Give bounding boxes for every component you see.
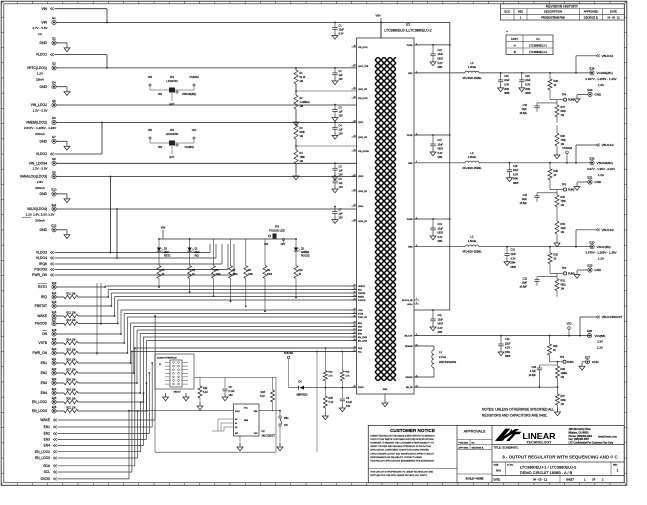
svg-text:PWR_ON: PWR_ON <box>33 351 48 355</box>
svg-text:R13 10k: R13 10k <box>66 319 76 322</box>
svg-text:RED: RED <box>195 252 200 254</box>
svg-text:R16 10k: R16 10k <box>66 358 76 361</box>
svg-text:RUN4: RUN4 <box>567 361 574 364</box>
svg-text:SDA: SDA <box>43 464 51 468</box>
svg-text:R27: R27 <box>561 395 566 398</box>
svg-text:EXT: EXT <box>169 155 174 159</box>
svg-text:25mA: 25mA <box>36 78 44 82</box>
svg-text:1630 McCarthy Blvd.: 1630 McCarthy Blvd. <box>569 428 592 431</box>
svg-text:0.97V - 1.95V - 2.02V: 0.97V - 1.95V - 2.02V <box>587 167 615 171</box>
svg-text:30: 30 <box>354 189 356 191</box>
svg-text:1.2A: 1.2A <box>597 346 603 350</box>
svg-text:VIN: VIN <box>148 128 152 132</box>
svg-text:SCLK: SCLK <box>235 411 241 413</box>
svg-text:2.8V: 2.8V <box>37 180 43 184</box>
svg-text:100k: 100k <box>248 274 254 276</box>
svg-text:APPLICATION. COMPONENT SUBSTIT: APPLICATION. COMPONENT SUBSTITUTION AND … <box>370 449 429 452</box>
svg-text:31: 31 <box>354 174 356 176</box>
svg-text:CIRCUIT THAT MEETS CUSTOMER-SU: CIRCUIT THAT MEETS CUSTOMER-SUPPLIED SPE… <box>370 438 434 441</box>
svg-text:VSRAM: VSRAM <box>562 146 573 150</box>
svg-text:JP3: JP3 <box>275 225 280 229</box>
svg-text:VSRAM(B2): VSRAM(B2) <box>597 161 613 165</box>
svg-text:C17: C17 <box>438 139 443 142</box>
svg-text:R28: R28 <box>561 368 566 371</box>
svg-text:E25: E25 <box>52 396 57 400</box>
svg-text:10V: 10V <box>339 78 344 81</box>
svg-text:LDO1_FB: LDO1_FB <box>358 89 368 91</box>
svg-text:THIS CIRCUIT IS PROPRIETARY TO: THIS CIRCUIT IS PROPRIETARY TO LINEAR TE… <box>370 471 433 474</box>
svg-text:RESISTORS AND CAPACITORS ARE 0: RESISTORS AND CAPACITORS ARE 0402. <box>482 414 547 418</box>
svg-text:LDO3: LDO3 <box>358 176 364 178</box>
svg-text:CIRCUIT BOARD LAYOUT MAY SIGNI: CIRCUIT BOARD LAYOUT MAY SIGNIFICANTLY A… <box>370 452 434 455</box>
svg-text:XFL4020-152ML: XFL4020-152ML <box>462 76 482 80</box>
svg-text:04 - 05 - 12: 04 - 05 - 12 <box>607 16 620 19</box>
svg-text:ASSY: ASSY <box>511 37 518 41</box>
svg-text:PVIN3: PVIN3 <box>407 219 414 221</box>
svg-text:RUN2: RUN2 <box>568 189 575 192</box>
svg-text:TECHNOLOGY APPLICATIONS ENGINE: TECHNOLOGY APPLICATIONS ENGINEERING FOR … <box>370 459 435 462</box>
svg-text:A1: A1 <box>235 422 237 425</box>
svg-text:VIO: VIO <box>192 128 196 132</box>
svg-text:NC: NC <box>472 442 476 444</box>
svg-text:C14: C14 <box>438 223 443 226</box>
svg-text:PGOOD: PGOOD <box>34 268 47 272</box>
svg-text:10pF: 10pF <box>522 108 528 111</box>
svg-text:6.3V: 6.3V <box>438 327 443 330</box>
svg-text:0.947V - 1.206V - 1.34V: 0.947V - 1.206V - 1.34V <box>585 77 616 81</box>
svg-text:1.50uH: 1.50uH <box>468 155 476 159</box>
svg-text:EN_LDO3: EN_LDO3 <box>35 456 50 460</box>
svg-text:5V6VSD: 5V6VSD <box>284 352 293 355</box>
svg-text:Milpitas, CA 95035: Milpitas, CA 95035 <box>569 432 590 435</box>
svg-text:VIN_LDO2: VIN_LDO2 <box>31 103 48 107</box>
svg-text:JP2: JP2 <box>170 128 175 132</box>
svg-text:1uF: 1uF <box>339 213 344 216</box>
svg-text:EN_LDO2: EN_LDO2 <box>35 450 50 454</box>
svg-text:DRNCB: DRNCB <box>405 377 413 379</box>
svg-text:C18: C18 <box>523 104 528 107</box>
svg-text:GND: GND <box>592 360 600 364</box>
svg-text:OFF: OFF <box>281 243 286 246</box>
svg-text:GEORGE B.: GEORGE B. <box>472 447 485 449</box>
svg-text:24LC025/ST: 24LC025/ST <box>262 435 276 438</box>
svg-text:748k: 748k <box>561 139 567 142</box>
svg-text:REV: REV <box>613 465 618 467</box>
svg-text:LDO2: LDO2 <box>358 122 364 124</box>
svg-text:VSRAM(B2): VSRAM(B2) <box>182 92 196 96</box>
svg-text:1K: 1K <box>192 274 195 276</box>
svg-text:E8: E8 <box>52 157 56 161</box>
svg-text:EN2: EN2 <box>44 432 51 436</box>
svg-text:VBUCK1: VBUCK1 <box>602 54 614 58</box>
svg-text:R18 10k: R18 10k <box>66 378 76 381</box>
svg-text:0603: 0603 <box>438 323 444 326</box>
svg-text:28: 28 <box>354 219 356 221</box>
svg-text:22uF: 22uF <box>504 79 510 82</box>
svg-text:DC590 INTERFACE: DC590 INTERFACE <box>157 357 177 360</box>
svg-text:VIN: VIN <box>158 92 162 96</box>
svg-text:200mA: 200mA <box>35 132 45 136</box>
svg-text:REV: REV <box>518 10 524 14</box>
svg-text:E28: E28 <box>587 329 592 333</box>
svg-text:1.2A: 1.2A <box>598 257 604 261</box>
svg-text:LDO2_FB: LDO2_FB <box>358 137 368 139</box>
svg-text:VIO(B3): VIO(B3) <box>184 145 194 149</box>
svg-text:5.1K: 5.1K <box>260 395 265 398</box>
svg-text:10V: 10V <box>339 217 344 220</box>
svg-text:C20: C20 <box>525 75 530 78</box>
svg-text:LTC3880EUJ-1: LTC3880EUJ-1 <box>529 43 547 47</box>
svg-text:29: 29 <box>354 204 356 206</box>
svg-text:PBSTAT: PBSTAT <box>358 292 366 295</box>
svg-text:RSTO: RSTO <box>164 256 171 258</box>
svg-text:VIN: VIN <box>375 14 380 18</box>
svg-text:10V: 10V <box>339 173 344 176</box>
svg-text:22uF: 22uF <box>513 169 519 172</box>
svg-text:0805: 0805 <box>511 266 517 269</box>
svg-text:VIN: VIN <box>158 145 162 149</box>
svg-text:BB_OUT: BB_OUT <box>404 336 413 338</box>
svg-text:±0.5pF: ±0.5pF <box>529 374 537 377</box>
svg-text:GND: GND <box>39 228 47 232</box>
svg-text:E2: E2 <box>52 37 56 41</box>
svg-text:8 - OUTPUT REGULATOR WITH SEQU: 8 - OUTPUT REGULATOR WITH SEQUENCING AND… <box>502 454 618 459</box>
svg-text:R14 10k: R14 10k <box>66 338 76 341</box>
svg-text:GND: GND <box>383 389 388 391</box>
svg-text:Fax: (408)434-0507: Fax: (408)434-0507 <box>569 438 590 441</box>
svg-text:VIO: VIO <box>567 322 573 326</box>
svg-text:VLDO3: VLDO3 <box>36 251 47 255</box>
svg-text:XFL4020-152ML: XFL4020-152ML <box>462 166 482 170</box>
svg-text:36: 36 <box>354 87 356 89</box>
svg-text:PRODUCTION FAB: PRODUCTION FAB <box>541 15 564 19</box>
svg-text:VIN_LDO34: VIN_LDO34 <box>29 161 47 165</box>
svg-text:VIN_LDO2: VIN_LDO2 <box>358 98 369 100</box>
svg-text:-A: -A <box>513 43 516 47</box>
svg-text:E12: E12 <box>52 224 57 228</box>
svg-text:04 - 05 - 12: 04 - 05 - 12 <box>533 477 548 481</box>
svg-text:1A: 1A <box>38 32 42 36</box>
svg-text:AMBER: AMBER <box>301 251 310 254</box>
svg-text:TP1: TP1 <box>560 356 565 359</box>
svg-text:R15 10k: R15 10k <box>66 348 76 351</box>
svg-text:100k: 100k <box>267 274 273 276</box>
svg-text:EN3: EN3 <box>41 381 48 385</box>
svg-text:E17: E17 <box>52 318 57 322</box>
svg-text:1uF: 1uF <box>339 74 344 77</box>
svg-text:VLDO2: VLDO2 <box>36 152 47 156</box>
svg-text:6.3V: 6.3V <box>339 32 344 35</box>
svg-text:1uF: 1uF <box>339 128 344 131</box>
svg-text:22uF: 22uF <box>525 79 531 82</box>
svg-text:SIZE: SIZE <box>494 465 499 467</box>
svg-text:E13: E13 <box>52 281 57 285</box>
svg-text:GND: GND <box>39 85 47 89</box>
svg-text:LTC3880EUJ-1,LTC3880EUJ-2: LTC3880EUJ-1,LTC3880EUJ-2 <box>384 29 431 33</box>
svg-text:EN1: EN1 <box>44 425 51 429</box>
svg-text:604k: 604k <box>561 110 567 113</box>
svg-text:22uF: 22uF <box>511 253 517 256</box>
svg-text:10V: 10V <box>339 132 344 135</box>
svg-text:5.1K: 5.1K <box>329 401 334 404</box>
svg-text:1: 1 <box>617 469 619 473</box>
svg-text:EN_LDO2: EN_LDO2 <box>358 337 368 339</box>
svg-text:VSOC(B3): VSOC(B3) <box>597 245 611 249</box>
svg-text:±0.5pF: ±0.5pF <box>520 286 528 289</box>
svg-text:GND: GND <box>39 139 47 143</box>
svg-text:www.linear.com: www.linear.com <box>598 436 618 439</box>
svg-text:E11: E11 <box>52 203 57 207</box>
svg-text:LTC3880EUJ-2: LTC3880EUJ-2 <box>529 50 547 54</box>
svg-text:1K: 1K <box>299 274 302 276</box>
svg-text:URSTB: URSTB <box>358 286 365 288</box>
svg-text:C11: C11 <box>438 314 443 317</box>
svg-text:DRAINB: DRAINB <box>405 345 413 348</box>
svg-text:38: 38 <box>354 45 356 47</box>
svg-text:E23: E23 <box>52 377 57 381</box>
svg-text:2.7uH: 2.7uH <box>439 355 446 359</box>
svg-text:E21: E21 <box>52 357 57 361</box>
svg-text:EN4: EN4 <box>41 391 48 395</box>
svg-text:E19: E19 <box>52 337 57 341</box>
svg-text:1uF: 1uF <box>339 169 344 172</box>
svg-text:R35: R35 <box>554 170 559 173</box>
svg-text:VCC: VCC <box>244 408 249 410</box>
svg-text:E16: E16 <box>52 310 57 314</box>
svg-text:R38: R38 <box>554 80 559 83</box>
svg-text:DATE:: DATE: <box>494 478 501 481</box>
svg-text:6.3V: 6.3V <box>504 84 509 87</box>
svg-text:LINEAR: LINEAR <box>523 432 556 441</box>
svg-text:VBUCKBOOST: VBUCKBOOST <box>602 315 623 319</box>
svg-text:E24: E24 <box>52 387 57 391</box>
svg-text:1.02MEG: 1.02MEG <box>300 101 310 104</box>
svg-text:IRQb: IRQb <box>39 262 47 266</box>
svg-text:1.00uH: 1.00uH <box>468 65 476 69</box>
svg-text:A2: A2 <box>235 426 237 429</box>
svg-text:E30: E30 <box>590 240 595 244</box>
svg-text:22uF: 22uF <box>505 342 511 345</box>
svg-text:TECHNOLOGY: TECHNOLOGY <box>527 441 553 445</box>
svg-text:E9: E9 <box>52 170 56 174</box>
svg-text:R21 10k: R21 10k <box>66 406 76 409</box>
svg-text:1.3V - 5.5V: 1.3V - 5.5V <box>32 108 47 112</box>
svg-text:EN_LDO2: EN_LDO2 <box>32 400 47 404</box>
svg-text:E29: E29 <box>588 264 593 268</box>
svg-text:VIN_LDO34: VIN_LDO34 <box>358 151 370 153</box>
svg-text:200mA: 200mA <box>35 219 45 223</box>
svg-text:DVDD: DVDD <box>358 387 364 389</box>
svg-text:PBSTAT: PBSTAT <box>35 304 47 308</box>
svg-text:R22: R22 <box>203 387 208 390</box>
svg-text:1uF: 1uF <box>339 111 344 114</box>
svg-text:10uF: 10uF <box>438 143 444 146</box>
svg-text:VIN: VIN <box>41 21 47 25</box>
svg-text:E7: E7 <box>52 135 56 139</box>
svg-text:1.50uH: 1.50uH <box>468 239 476 243</box>
svg-text:EN4: EN4 <box>44 444 51 448</box>
svg-text:JP1: JP1 <box>170 75 175 79</box>
svg-text:TITLE: SCHEMATIC:: TITLE: SCHEMATIC: <box>494 445 519 449</box>
svg-text:ON: ON <box>264 243 268 246</box>
svg-text:VIO(B8): VIO(B8) <box>595 334 606 338</box>
svg-text:E33: E33 <box>588 88 593 92</box>
svg-text:PCB DES: PCB DES <box>459 442 469 444</box>
svg-text:8: 8 <box>416 302 417 304</box>
svg-text:VSTB: VSTB <box>38 341 47 345</box>
svg-text:VRTC(LDO1): VRTC(LDO1) <box>27 66 47 70</box>
svg-text:681k: 681k <box>561 284 567 287</box>
svg-text:DESCRIPTION: DESCRIPTION <box>544 10 562 14</box>
svg-text:1.6A: 1.6A <box>598 83 604 87</box>
svg-text:SUPPLIED FOR USE WITH LINEAR T: SUPPLIED FOR USE WITH LINEAR TECHNOLOGY … <box>370 474 427 477</box>
svg-text:VBUCK2: VBUCK2 <box>602 143 614 147</box>
svg-text:VSTB: VSTB <box>358 314 364 316</box>
svg-text:LDO34VIN: LDO34VIN <box>166 132 179 136</box>
svg-text:VIN: VIN <box>41 7 47 11</box>
svg-text:APP ENG: APP ENG <box>459 446 469 449</box>
svg-text:C21: C21 <box>438 49 443 52</box>
svg-text:ON: ON <box>284 424 288 427</box>
svg-text:VAUX(LDO4): VAUX(LDO4) <box>27 207 47 211</box>
svg-text:ECO: ECO <box>504 10 510 14</box>
svg-text:EN_LDO3: EN_LDO3 <box>358 341 368 343</box>
svg-text:E15: E15 <box>52 300 57 304</box>
svg-text:16V: 16V <box>346 405 351 408</box>
svg-text:E4: E4 <box>52 81 56 85</box>
svg-text:EN_LDO3: EN_LDO3 <box>32 409 47 413</box>
svg-text:LINEAR TECHNOLOGY HAS MADE A B: LINEAR TECHNOLOGY HAS MADE A BEST EFFORT… <box>370 435 435 438</box>
svg-text:EN2: EN2 <box>41 371 48 375</box>
svg-text:1.2V, 1.8V, 2.5V, 3.3V: 1.2V, 1.8V, 2.5V, 3.3V <box>26 212 55 216</box>
svg-text:R31: R31 <box>561 280 566 283</box>
svg-text:0603: 0603 <box>438 148 444 151</box>
svg-text:SCALE = NONE: SCALE = NONE <box>466 477 484 480</box>
svg-text:0805: 0805 <box>513 182 519 185</box>
svg-text:0805: 0805 <box>525 92 531 95</box>
svg-text:4.7pF: 4.7pF <box>530 370 537 373</box>
svg-text:C15: C15 <box>523 194 528 197</box>
svg-text:E32: E32 <box>590 156 595 160</box>
svg-text:GEORGE B.: GEORGE B. <box>584 15 599 19</box>
svg-text:TP2: TP2 <box>562 267 567 270</box>
svg-text:VON: VON <box>358 310 363 312</box>
svg-text:10uF: 10uF <box>438 53 444 56</box>
svg-text:-: - <box>507 16 508 19</box>
svg-text:U1: U1 <box>536 37 540 41</box>
svg-text:IRQ: IRQ <box>358 290 362 292</box>
svg-text:LDO4_FB: LDO4_FB <box>358 221 368 223</box>
svg-text:DVDD: DVDD <box>41 477 51 481</box>
svg-text:CUSTOMER NOTICE: CUSTOMER NOTICE <box>390 428 435 433</box>
svg-text:E1: E1 <box>52 16 56 20</box>
svg-text:R23: R23 <box>261 391 266 394</box>
svg-text:±0.5pF: ±0.5pF <box>520 112 528 115</box>
svg-text:10uF: 10uF <box>438 318 444 321</box>
svg-text:VIN: VIN <box>161 226 166 230</box>
svg-text:AUXx: AUXx <box>407 303 412 306</box>
svg-text:C10: C10 <box>505 338 510 341</box>
svg-text:PGOOD LED: PGOOD LED <box>269 229 285 233</box>
svg-text:REVISION HISTORY: REVISION HISTORY <box>546 4 579 8</box>
svg-text:XFL4020-152ML: XFL4020-152ML <box>462 250 482 254</box>
svg-text:E18: E18 <box>52 328 57 332</box>
svg-text:PGOOD: PGOOD <box>35 322 48 326</box>
svg-text:10V: 10V <box>339 115 344 118</box>
svg-text:2.7V - 5.5V: 2.7V - 5.5V <box>32 26 47 30</box>
svg-text:E14: E14 <box>52 291 57 295</box>
svg-text:R17 10k: R17 10k <box>66 368 76 371</box>
svg-text:1.3V - 5.5V: 1.3V - 5.5V <box>32 167 47 171</box>
svg-text:A0: A0 <box>235 418 237 421</box>
svg-text:E3: E3 <box>52 62 56 66</box>
svg-text:GND: GND <box>595 93 603 97</box>
svg-text:16V: 16V <box>229 394 234 397</box>
svg-text:316k: 316k <box>561 399 567 402</box>
svg-text:604k: 604k <box>300 131 306 134</box>
svg-text:0603: 0603 <box>438 58 444 61</box>
svg-text:GND: GND <box>595 180 603 184</box>
svg-text:PERFORMANCE OR RELIABILITY. CO: PERFORMANCE OR RELIABILITY. CONTACT LINE… <box>370 456 422 459</box>
svg-text:100k: 100k <box>233 274 239 276</box>
svg-text:Phone: (408)432-1900: Phone: (408)432-1900 <box>569 435 593 438</box>
svg-text:0.647V - 1.206V - 1.34V: 0.647V - 1.206V - 1.34V <box>24 126 56 130</box>
svg-text:6.3V: 6.3V <box>513 173 518 176</box>
svg-text:LDO4: LDO4 <box>358 206 364 208</box>
svg-text:HEDX7: HEDX7 <box>173 392 181 394</box>
svg-text:HOWEVER, IT REMAINS THE CUSTOM: HOWEVER, IT REMAINS THE CUSTOMER'S RESPO… <box>370 442 434 445</box>
svg-text:1uF: 1uF <box>339 182 344 185</box>
svg-text:LDO2VIN: LDO2VIN <box>166 79 177 83</box>
svg-text:6.3V: 6.3V <box>511 257 516 260</box>
svg-text:10V: 10V <box>339 186 344 189</box>
svg-text:33: 33 <box>354 135 356 137</box>
svg-text:E5: E5 <box>52 99 56 103</box>
svg-text:R34: R34 <box>561 196 566 199</box>
svg-text:NOTES: UNLESS OTHERWISE SPECIF: NOTES: UNLESS OTHERWISE SPECIFIED ALL <box>482 408 554 412</box>
svg-text:PB1: PB1 <box>284 417 289 420</box>
svg-text:E10: E10 <box>52 188 57 192</box>
svg-text:C13: C13 <box>511 249 516 252</box>
svg-text:PWR_ON: PWR_ON <box>32 273 47 277</box>
svg-text:IRQ: IRQ <box>195 256 199 258</box>
svg-text:51.1k: 51.1k <box>300 76 307 79</box>
svg-text:422k: 422k <box>561 227 567 230</box>
svg-text:R12 10k: R12 10k <box>66 311 76 314</box>
svg-text:LDO1_STB: LDO1_STB <box>358 66 369 68</box>
svg-text:VLDO1: VLDO1 <box>36 53 47 57</box>
svg-text:E34: E34 <box>590 67 595 71</box>
svg-text:C19: C19 <box>504 75 509 78</box>
svg-text:6.3V: 6.3V <box>438 236 443 239</box>
svg-text:APPROVED: APPROVED <box>584 10 599 14</box>
svg-text:4.2V: 4.2V <box>505 347 510 350</box>
svg-text:R11 10k: R11 10k <box>66 292 76 295</box>
svg-text:E31: E31 <box>588 176 593 180</box>
svg-text:100k: 100k <box>216 274 222 276</box>
svg-text:1.2V: 1.2V <box>37 71 43 75</box>
svg-text:LTC3880EUJ-1 / LTC3880EUJ-2: LTC3880EUJ-1 / LTC3880EUJ-2 <box>520 464 576 469</box>
svg-text:10pF: 10pF <box>522 282 528 285</box>
svg-text:WAKE: WAKE <box>37 314 47 318</box>
svg-text:0805: 0805 <box>504 92 510 95</box>
svg-text:R33: R33 <box>561 223 566 226</box>
svg-text:R29: R29 <box>553 345 558 348</box>
svg-text:EN1: EN1 <box>41 361 48 365</box>
svg-text:7: 7 <box>416 298 417 300</box>
svg-text:APPROVALS: APPROVALS <box>464 429 486 433</box>
svg-text:WAKE: WAKE <box>40 418 50 422</box>
